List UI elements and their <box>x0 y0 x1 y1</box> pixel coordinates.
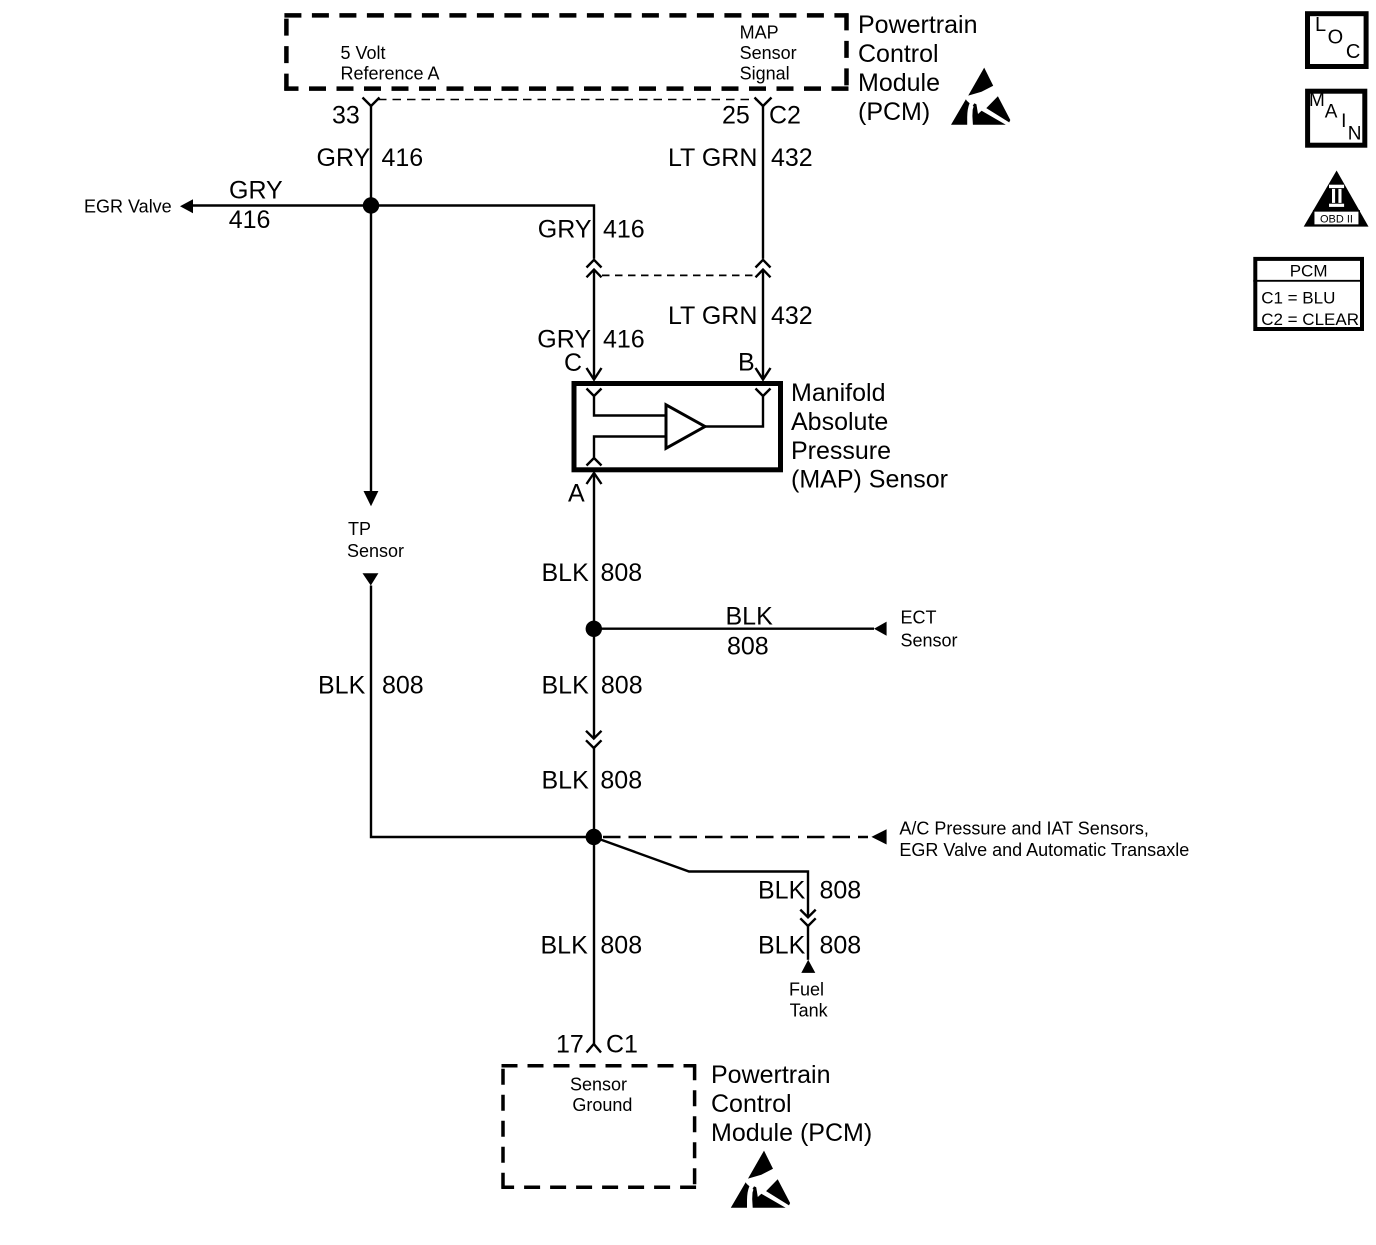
label BLK 808 above pin 17 <box>541 932 643 960</box>
PCM module dashed box (bottom) <box>502 1064 697 1189</box>
in-line connector right half (LT GRN wire) <box>756 260 771 278</box>
label A/C Pressure and IAT Sensors, EGR Valve and Automatic Transaxle <box>899 818 1189 860</box>
wire BLK 808 from connector to A/C junction <box>593 748 595 837</box>
svg-text:M: M <box>1309 90 1325 111</box>
svg-text:L: L <box>1315 14 1326 36</box>
svg-text:Pressure: Pressure <box>791 437 891 465</box>
wire GRY 416 from pin 33 down to TP sensor <box>370 106 372 492</box>
svg-text:BLK: BLK <box>541 932 589 960</box>
svg-text:A/C Pressure and IAT Sensors,: A/C Pressure and IAT Sensors, <box>899 818 1148 838</box>
svg-text:(PCM): (PCM) <box>858 98 930 126</box>
svg-text:808: 808 <box>601 671 643 699</box>
svg-text:Tank: Tank <box>790 1001 829 1021</box>
svg-text:416: 416 <box>603 326 645 354</box>
svg-text:BLK: BLK <box>726 603 774 631</box>
in-line connector on fuel tank wire <box>800 910 815 926</box>
wire LT GRN 432 from pin 25 <box>762 106 764 259</box>
label BLK 808 on TP wire <box>318 671 424 699</box>
wire LT GRN 432 lower segment to MAP pin B <box>762 270 764 380</box>
svg-text:Control: Control <box>858 40 939 68</box>
arrowhead into MAP pin B <box>756 368 771 380</box>
arrowhead into MAP pin C <box>587 368 602 380</box>
svg-text:Module (PCM): Module (PCM) <box>711 1119 872 1147</box>
ECT junction dot <box>586 621 602 637</box>
label BLK 808 below connector <box>542 766 643 794</box>
svg-text:Reference A: Reference A <box>341 64 440 84</box>
junction dot A/C branch <box>586 829 602 845</box>
svg-text:Sensor: Sensor <box>570 1075 627 1095</box>
svg-text:Manifold: Manifold <box>791 379 886 407</box>
in-line connector left half (GRY wire) <box>587 260 602 278</box>
arrowhead fuel tank <box>801 960 815 973</box>
label BLK 808 above connector <box>542 671 643 699</box>
svg-text:LT GRN: LT GRN <box>668 144 757 172</box>
label LT GRN 432 lower <box>668 302 813 330</box>
svg-text:C1 = BLU: C1 = BLU <box>1261 288 1335 307</box>
svg-text:Fuel: Fuel <box>789 979 824 999</box>
svg-text:BLK: BLK <box>758 877 806 905</box>
svg-text:Sensor: Sensor <box>901 630 958 650</box>
wire BLK 808 from TP sensor to A/C junction <box>371 586 594 838</box>
svg-text:BLK: BLK <box>758 932 806 960</box>
svg-text:GRY: GRY <box>317 144 371 172</box>
OBD II symbol <box>1304 171 1369 227</box>
svg-text:Signal: Signal <box>740 64 790 84</box>
svg-text:BLK: BLK <box>542 766 590 794</box>
arrowhead A/C branch <box>871 829 886 844</box>
in-line connector dashed tie line <box>602 274 753 276</box>
svg-text:N: N <box>1348 124 1362 145</box>
svg-text:808: 808 <box>600 766 642 794</box>
svg-text:BLK: BLK <box>542 671 590 699</box>
svg-text:Powertrain: Powertrain <box>858 11 978 39</box>
svg-text:33: 33 <box>332 101 360 129</box>
wire BLK 808 from ECT junction to connector <box>593 629 595 739</box>
svg-text:OBD II: OBD II <box>1320 213 1353 225</box>
svg-text:C2: C2 <box>769 101 801 129</box>
svg-text:416: 416 <box>229 206 271 234</box>
label MAP Sensor Signal <box>740 23 797 84</box>
svg-text:Control: Control <box>711 1090 792 1118</box>
wire GRY 416 EGR branch to MAP drop <box>193 206 594 259</box>
label Fuel Tank <box>789 979 829 1020</box>
svg-text:416: 416 <box>603 216 645 244</box>
svg-text:432: 432 <box>771 144 813 172</box>
PCM connector legend box <box>1253 259 1364 329</box>
MAP internal pin C fork and wire <box>587 389 667 416</box>
svg-text:O: O <box>1328 26 1344 48</box>
op-amp triangle <box>666 405 705 449</box>
svg-text:Sensor: Sensor <box>740 43 797 63</box>
svg-text:A: A <box>568 480 585 508</box>
svg-text:BLK: BLK <box>542 559 590 587</box>
svg-text:17: 17 <box>556 1031 584 1059</box>
wire BLK 808 to ECT sensor <box>594 628 874 630</box>
label GRY 416 middle upper <box>538 216 645 244</box>
MAP internal output wire and pin B fork <box>705 389 771 427</box>
wire to fuel tank <box>807 926 809 960</box>
svg-text:808: 808 <box>820 932 862 960</box>
svg-text:Powertrain: Powertrain <box>711 1061 831 1089</box>
connector fork pin 17 <box>587 1044 602 1053</box>
svg-text:432: 432 <box>771 302 813 330</box>
connector fork pin 33 <box>363 98 380 107</box>
svg-text:Sensor: Sensor <box>347 541 404 561</box>
ESD sensitive device symbol bottom <box>731 1151 790 1208</box>
label Powertrain Control Module (PCM) bottom <box>711 1061 872 1147</box>
svg-text:B: B <box>738 349 755 377</box>
wire GRY 416 lower segment to MAP pin C <box>593 270 595 380</box>
label ECT Sensor <box>901 608 958 651</box>
arrowhead ECT sensor <box>874 622 887 636</box>
MAIN hotlink symbol <box>1308 90 1365 145</box>
svg-text:808: 808 <box>382 671 424 699</box>
svg-text:PCM: PCM <box>1290 262 1328 281</box>
svg-text:C: C <box>1346 41 1360 63</box>
in-line connector on BLK 808 wire <box>586 731 602 748</box>
label GRY over 416 on EGR branch <box>229 177 283 234</box>
wire BLK 808 from A/C junction to PCM pin 17 <box>593 837 595 1044</box>
junction dot EGR branch <box>363 197 379 213</box>
arrowhead to TP sensor <box>364 491 379 506</box>
svg-text:Absolute: Absolute <box>791 408 888 436</box>
svg-text:(MAP) Sensor: (MAP) Sensor <box>791 466 948 494</box>
svg-text:5 Volt: 5 Volt <box>341 43 386 63</box>
MAP internal pin A fork and wire <box>587 437 667 466</box>
svg-text:GRY: GRY <box>538 216 592 244</box>
svg-text:LT GRN: LT GRN <box>668 302 757 330</box>
arrow from TP sensor <box>363 573 379 585</box>
svg-text:ECT: ECT <box>901 608 937 628</box>
svg-text:808: 808 <box>727 633 769 661</box>
label BLK 808 fuel branch upper <box>758 877 861 905</box>
svg-text:Ground: Ground <box>572 1095 632 1115</box>
svg-text:808: 808 <box>601 559 643 587</box>
dashed connector line between pins 33 and 25 <box>378 99 756 101</box>
label BLK 808 below MAP <box>542 559 643 587</box>
svg-text:C: C <box>564 349 582 377</box>
svg-text:C2 = CLEAR: C2 = CLEAR <box>1261 310 1359 329</box>
label LT GRN 432 upper <box>668 144 813 172</box>
svg-text:808: 808 <box>820 877 862 905</box>
label 5 Volt Reference A <box>341 43 440 84</box>
connector fork pin 25 C2 <box>755 98 772 107</box>
svg-text:GRY: GRY <box>229 177 283 205</box>
label BLK 808 fuel branch lower <box>758 932 861 960</box>
label GRY 416 lower <box>537 326 644 354</box>
dashed wire to A/C pressure and IAT sensors <box>603 836 868 838</box>
label BLK over 808 on ECT branch <box>726 603 774 661</box>
svg-text:BLK: BLK <box>318 671 366 699</box>
svg-text:416: 416 <box>382 144 424 172</box>
arrowhead EGR valve <box>180 199 193 213</box>
ESD sensitive device symbol top <box>951 68 1010 125</box>
LOC hotlink symbol <box>1308 14 1367 67</box>
svg-text:I: I <box>1341 111 1346 132</box>
label GRY 416 upper left <box>317 144 424 172</box>
label Powertrain Control Module (PCM) top <box>858 11 978 126</box>
svg-text:Module: Module <box>858 69 940 97</box>
arrowhead from MAP pin A <box>587 473 602 484</box>
diagonal wire to fuel tank branch <box>601 840 809 918</box>
svg-text:25: 25 <box>722 101 750 129</box>
svg-text:MAP: MAP <box>740 23 779 43</box>
svg-text:EGR Valve: EGR Valve <box>84 197 172 217</box>
PCM module dashed box (top) <box>284 13 848 90</box>
MAP sensor box <box>574 384 781 470</box>
label Manifold Absolute Pressure (MAP) Sensor <box>791 379 948 494</box>
svg-text:EGR Valve and Automatic Transa: EGR Valve and Automatic Transaxle <box>899 840 1189 860</box>
svg-text:808: 808 <box>600 932 642 960</box>
svg-text:C1: C1 <box>606 1031 638 1059</box>
label Sensor Ground <box>570 1075 632 1115</box>
wire BLK 808 from MAP pin A to ECT junction <box>593 473 595 629</box>
TP sensor label <box>347 519 404 561</box>
svg-text:A: A <box>1325 102 1338 123</box>
svg-text:TP: TP <box>348 519 371 539</box>
